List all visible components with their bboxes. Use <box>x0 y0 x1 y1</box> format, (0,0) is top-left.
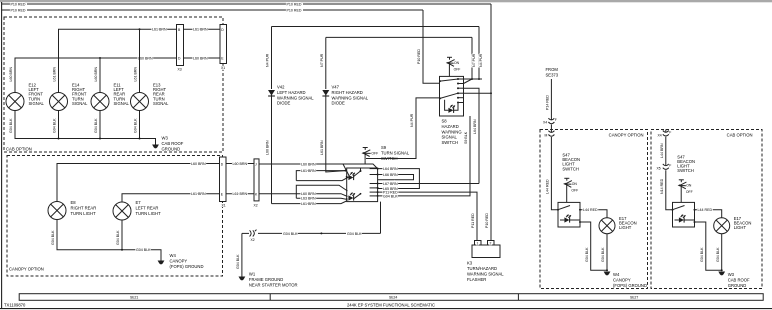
svg-text:G04 BLK: G04 BLK <box>51 230 55 245</box>
diode V47 right hazard warning signal diode <box>320 37 369 172</box>
svg-text:OFF: OFF <box>371 151 378 155</box>
svg-text:N14 RED: N14 RED <box>660 178 664 194</box>
svg-text:L61 BRN: L61 BRN <box>320 140 324 155</box>
svg-text:SE24: SE24 <box>389 296 397 300</box>
wire S47 to E17 (cab) <box>695 208 722 218</box>
svg-text:X1: X1 <box>222 204 226 208</box>
page bottom border <box>0 308 772 310</box>
wire P10 RED bus1 drop to flasher <box>471 4 491 240</box>
wire bus P10 RED top line 2 <box>2 9 423 13</box>
svg-text:L44 BRN: L44 BRN <box>660 143 664 158</box>
svg-text:X5: X5 <box>657 167 661 171</box>
svg-text:CANOPY OPTION: CANOPY OPTION <box>9 267 44 272</box>
svg-text:CANOPY OPTION: CANOPY OPTION <box>609 133 644 138</box>
svg-text:2: 2 <box>490 241 492 245</box>
wire left-turn lamp bus (lower) to X3 pin D <box>15 56 177 92</box>
svg-text:L67 BRN: L67 BRN <box>383 182 398 186</box>
svg-text:OFF: OFF <box>454 67 461 71</box>
wire cab beacon feed upper <box>660 137 666 165</box>
svg-text:F: F <box>669 130 671 134</box>
svg-text:L64 BRN: L64 BRN <box>383 167 398 171</box>
svg-text:N7 PUR: N7 PUR <box>320 53 324 67</box>
dashed box CANOPY OPTION (bottom left) <box>7 156 223 277</box>
connector X1 (lower section) <box>220 157 227 208</box>
svg-text:P14 RED: P14 RED <box>546 95 550 110</box>
dashed box CAB OPTION (top left) <box>4 17 223 152</box>
wire E13 lamp top <box>134 29 140 92</box>
svg-text:244K EP SYSTEM FUNCTIONAL SCHE: 244K EP SYSTEM FUNCTIONAL SCHEMATIC <box>347 303 435 308</box>
svg-text:N4 PUR: N4 PUR <box>479 53 483 67</box>
diode V42 left hazard warning signal diode <box>266 27 315 204</box>
svg-text:X1: X1 <box>221 66 225 70</box>
wire hazard bus lower (V47 to hazard switch) <box>326 36 472 38</box>
svg-text:G04 BLK: G04 BLK <box>601 247 605 262</box>
lamp E14 right front turn signal <box>50 83 89 111</box>
svg-text:L44 RED: L44 RED <box>698 208 713 212</box>
svg-text:P10 RED: P10 RED <box>417 49 421 64</box>
lamp E8 right rear turn light <box>48 200 96 220</box>
svg-text:L61 BRN: L61 BRN <box>134 67 138 82</box>
svg-text:G04 BLK: G04 BLK <box>136 248 151 252</box>
wire W1 ground run <box>236 230 381 277</box>
svg-text:L61 BRN: L61 BRN <box>53 67 57 82</box>
wire S47 to E17 (canopy) <box>580 208 607 218</box>
svg-text:X4: X4 <box>543 121 547 125</box>
wire bus P10 RED top line 1 <box>2 3 491 7</box>
connector X3 <box>177 25 184 72</box>
svg-text:P10 RED: P10 RED <box>11 3 26 7</box>
wire P10 RED drop to S8 <box>417 10 440 83</box>
svg-text:M: M <box>545 134 548 138</box>
ground W3 cab roof ground <box>152 136 184 152</box>
ground W4 canopy fops ground (right) <box>604 272 647 289</box>
switch S47 beacon light switch (canopy) <box>557 153 581 228</box>
svg-text:L60 BRN: L60 BRN <box>301 162 316 166</box>
svg-text:SE27: SE27 <box>630 296 638 300</box>
wire X1 E to X2 K <box>226 192 254 196</box>
svg-text:X4: X4 <box>658 133 662 137</box>
svg-text:L44 RED: L44 RED <box>546 179 550 194</box>
ground W3 cab roof ground (right) <box>718 272 750 289</box>
section bar <box>19 294 763 301</box>
svg-text:OFF: OFF <box>571 189 578 193</box>
S8 right pin wires <box>464 27 493 184</box>
lamp E11 left rear turn signal <box>91 83 130 111</box>
wire cab beacon grounds <box>695 222 723 271</box>
svg-text:SE21: SE21 <box>130 296 138 300</box>
svg-text:G04 BLK: G04 BLK <box>347 232 362 236</box>
wire S8 pin to S9 toggle <box>366 98 440 159</box>
svg-text:ON: ON <box>454 61 460 65</box>
svg-text:G04 BLK: G04 BLK <box>383 194 398 198</box>
svg-text:P10 RED: P10 RED <box>287 3 302 7</box>
svg-text:L61 BRN: L61 BRN <box>193 28 208 32</box>
connector X4 (cab) <box>658 130 672 138</box>
svg-text:G04 BLK: G04 BLK <box>283 232 298 236</box>
svg-text:L60 BRN: L60 BRN <box>138 56 153 60</box>
svg-text:F: F <box>669 164 671 168</box>
svg-text:L61 BRN: L61 BRN <box>191 192 206 196</box>
svg-text:P10 RED: P10 RED <box>11 9 26 13</box>
wire right-turn lamp bus (upper) to X3 pin B <box>59 28 177 93</box>
dashed box CAB OPTION (right) <box>651 130 762 289</box>
lamp E13 right rear turn signal <box>131 83 170 111</box>
switch S47 beacon light switch (cab) <box>672 154 696 227</box>
svg-text:L61 BRN: L61 BRN <box>301 169 316 173</box>
svg-text:L63 BRN: L63 BRN <box>301 197 316 201</box>
svg-text:1: 1 <box>477 241 479 245</box>
svg-text:L60 BRN: L60 BRN <box>191 162 206 166</box>
svg-text:P10 RED: P10 RED <box>485 213 489 228</box>
connector X5 (cab) <box>657 164 672 171</box>
connector X1 (upper section) <box>220 25 227 71</box>
svg-text:ON: ON <box>572 182 578 186</box>
svg-text:OFF: OFF <box>686 190 693 194</box>
svg-text:N4 PUR: N4 PUR <box>410 113 414 127</box>
svg-text:L61 BRN: L61 BRN <box>233 192 248 196</box>
switch S8 hazard warning signal switch <box>439 57 464 145</box>
svg-text:TX1109870: TX1109870 <box>4 303 26 308</box>
svg-text:CAB OPTION: CAB OPTION <box>6 147 32 152</box>
switch S9 turn signal switch <box>346 145 410 202</box>
svg-text:G04 BLK: G04 BLK <box>116 230 120 245</box>
svg-text:G04 BLK: G04 BLK <box>236 254 240 269</box>
svg-text:G04 BLK: G04 BLK <box>700 247 704 262</box>
S9 left pin wires <box>259 162 378 206</box>
svg-text:L60 BRN: L60 BRN <box>233 162 248 166</box>
svg-text:X2: X2 <box>251 238 255 242</box>
svg-text:G04 BLK: G04 BLK <box>585 247 589 262</box>
svg-text:FROMSE373: FROMSE373 <box>546 67 559 78</box>
wire E11 lamp top <box>94 58 100 93</box>
dashed box CANOPY OPTION (right) <box>540 130 648 289</box>
page left border <box>1 2 3 309</box>
ground W1 frame ground <box>239 272 298 288</box>
wire canopy beacon grounds <box>580 222 608 271</box>
svg-text:L60 BRN: L60 BRN <box>193 56 208 60</box>
wire E7 to X1 pin E <box>122 192 220 202</box>
lamp E12 left front turn signal <box>6 83 45 111</box>
svg-text:P11 RED: P11 RED <box>471 213 475 228</box>
svg-text:L60 BRN: L60 BRN <box>266 140 270 155</box>
svg-text:G04 BLK: G04 BLK <box>716 247 720 262</box>
wire X3 B to X1 D <box>184 28 221 32</box>
svg-text:N7 PUR: N7 PUR <box>472 53 476 67</box>
page top gray band <box>0 0 772 2</box>
svg-text:P10 RED: P10 RED <box>287 9 302 13</box>
wire hazard bus upper (V42 to hazard switch) <box>272 26 480 28</box>
wire canopy beacon feed <box>546 137 559 210</box>
svg-text:L66 BRN: L66 BRN <box>383 173 398 177</box>
svg-text:F: F <box>555 118 557 122</box>
svg-text:S9 BLK: S9 BLK <box>464 131 468 144</box>
svg-text:L60 BRN: L60 BRN <box>9 67 13 82</box>
svg-text:G04 BLK: G04 BLK <box>134 118 138 133</box>
wire X3 D to X1 E <box>184 56 221 60</box>
svg-text:X3: X3 <box>178 68 182 72</box>
S9 right pin wires <box>377 116 479 240</box>
svg-text:L64 BRN: L64 BRN <box>473 119 477 134</box>
lamp E17 beacon light (canopy) <box>599 216 637 234</box>
svg-text:L44 RED: L44 RED <box>583 208 598 212</box>
wire from SE373 to canopy beacon <box>546 79 552 120</box>
svg-text:G04 BLK: G04 BLK <box>94 118 98 133</box>
wire E8 to X1 pin D <box>57 162 220 202</box>
node FROM SE373 <box>546 67 559 78</box>
ground W4 canopy fops ground (left box) <box>158 253 204 269</box>
svg-text:L60 BRN: L60 BRN <box>301 192 316 196</box>
connector X2 <box>254 159 260 208</box>
wire cab beacon feed lower <box>660 170 673 210</box>
wire canopy lamp ground run <box>51 220 161 261</box>
connector X4 (canopy) <box>543 118 557 125</box>
lamp E7 left rear turn light <box>113 200 161 220</box>
wire X1 D to X2 J <box>226 162 254 166</box>
svg-text:N4 PUR: N4 PUR <box>266 53 270 67</box>
svg-text:J: J <box>255 162 257 166</box>
wire lamp ground bus <box>9 111 155 145</box>
svg-text:L61 BRN: L61 BRN <box>152 28 167 32</box>
svg-text:X2: X2 <box>254 204 258 208</box>
lamp E17 beacon light (cab) <box>714 216 752 234</box>
svg-text:L60 BRN: L60 BRN <box>94 67 98 82</box>
connector X5 (canopy inner) <box>545 125 555 138</box>
svg-text:ON: ON <box>686 184 692 188</box>
wire E12 lamp top <box>9 58 15 93</box>
svg-text:L61 BRN: L61 BRN <box>301 202 316 206</box>
svg-text:G04 BLK: G04 BLK <box>9 118 13 133</box>
wire E14 lamp top <box>53 29 59 92</box>
svg-text:G04 BLK: G04 BLK <box>53 118 57 133</box>
flasher K3 turn/hazard warning signal flasher <box>467 241 504 283</box>
svg-text:CAB OPTION: CAB OPTION <box>727 133 753 138</box>
